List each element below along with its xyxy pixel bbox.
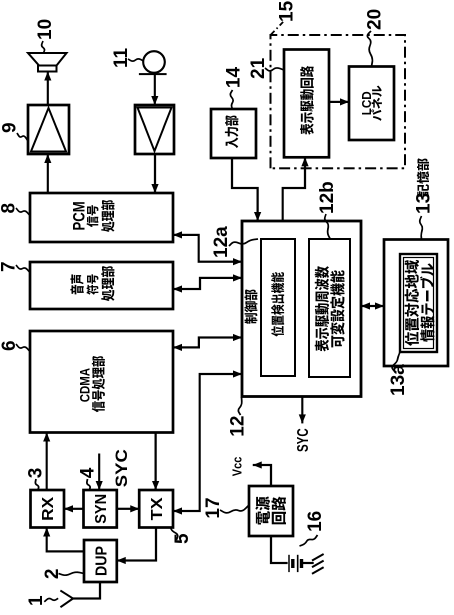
svg-text:11: 11 — [111, 47, 132, 68]
svg-text:SYN: SYN — [93, 494, 110, 524]
svg-text:Vcc: Vcc — [230, 457, 245, 477]
svg-text:10: 10 — [35, 19, 56, 40]
svg-text:20: 20 — [365, 9, 386, 30]
svg-text:SYC: SYC — [112, 449, 131, 487]
svg-text:12a: 12a — [211, 226, 232, 258]
svg-text:1: 1 — [26, 595, 47, 606]
svg-text:9: 9 — [0, 122, 21, 133]
svg-text:SYC: SYC — [295, 428, 312, 452]
svg-text:13: 13 — [414, 193, 435, 214]
svg-text:CDMA: CDMA — [76, 368, 92, 402]
svg-text:TX: TX — [149, 497, 166, 520]
svg-text:15: 15 — [277, 0, 298, 22]
svg-text:14: 14 — [223, 67, 244, 89]
svg-text:12b: 12b — [317, 181, 338, 214]
svg-text:5: 5 — [172, 533, 193, 544]
svg-text:4: 4 — [77, 467, 98, 478]
svg-text:DUP: DUP — [94, 546, 111, 576]
svg-text:12: 12 — [228, 416, 249, 437]
svg-text:PCM: PCM — [70, 201, 89, 230]
svg-text:RX: RX — [40, 496, 57, 520]
svg-text:3: 3 — [26, 468, 47, 479]
svg-text:16: 16 — [305, 511, 326, 532]
svg-text:17: 17 — [203, 497, 224, 518]
svg-text:13a: 13a — [388, 364, 409, 396]
